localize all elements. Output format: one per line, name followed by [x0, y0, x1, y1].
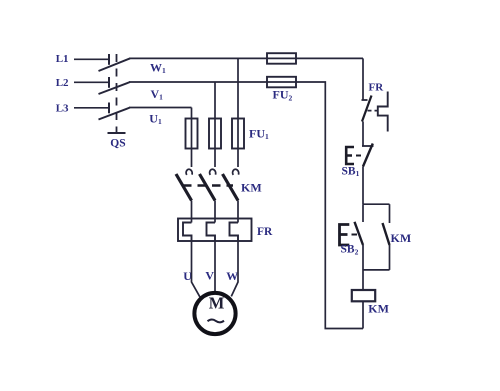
relay contact FR (NC) blade — [362, 96, 372, 122]
pushbutton SB1 linkage dash — [356, 155, 361, 157]
pushbutton SB2 label — [341, 244, 359, 257]
contactor KM main label — [241, 181, 262, 195]
wire L2 input — [74, 81, 109, 83]
motor terminal V label — [205, 269, 214, 283]
wire W to motor — [231, 241, 238, 296]
pushbutton SB2 (NO start) blade — [355, 222, 364, 245]
wire phase U drop — [191, 108, 193, 119]
thermal relay FR heater element 1 — [183, 223, 192, 242]
svg-text:KM: KM — [368, 302, 389, 316]
wire parallel branch top rail — [363, 203, 390, 205]
thermal relay FR heater element 2 — [207, 223, 216, 242]
switch QS linkage dashed line — [116, 54, 118, 132]
svg-text:L3: L3 — [56, 103, 69, 115]
wire SB2 upper stub — [362, 204, 364, 222]
fuse FU1 label — [249, 126, 269, 141]
wire V1 line — [129, 81, 267, 83]
wire below fuse 1 — [191, 149, 193, 168]
QS pole 1 blade — [99, 58, 131, 71]
coil KM label — [368, 302, 389, 316]
contactor KM main contact 1 blade — [176, 174, 192, 201]
wire phase V drop — [214, 82, 216, 119]
svg-text:L1: L1 — [56, 53, 69, 65]
svg-text:FU2: FU2 — [273, 88, 293, 103]
pushbutton SB1 actuator E — [346, 147, 354, 164]
contactor KM main contact 3 hook — [233, 169, 239, 175]
wire SB1 to branch top — [362, 167, 364, 205]
svg-text:FR: FR — [369, 81, 385, 93]
contactor KM main contact 3 blade — [223, 174, 239, 201]
node L2 — [56, 77, 69, 89]
node U1 — [149, 111, 162, 126]
motor terminal W label — [226, 269, 238, 283]
motor M circle — [194, 293, 235, 334]
relay FR trip linkage dashed — [368, 110, 379, 112]
svg-text:W1: W1 — [150, 60, 166, 75]
motor terminal U label — [183, 269, 192, 283]
thermal relay FR heater box — [178, 219, 252, 242]
thermal relay FR heater element 3 — [230, 223, 239, 242]
svg-text:KM: KM — [391, 231, 412, 245]
fuse FU2 label — [273, 88, 293, 103]
svg-text:U1: U1 — [149, 111, 162, 126]
node V1 — [151, 87, 164, 102]
wire SB2 lower stub — [362, 245, 364, 270]
relay contact FR (NC) fixed tick — [362, 99, 368, 101]
fuse FU1 pole 2 — [209, 119, 221, 149]
svg-text:KM: KM — [241, 181, 262, 195]
wire SB2 to coil — [362, 270, 364, 290]
node W1 — [150, 60, 166, 75]
switch QS label — [110, 137, 125, 149]
motor tilde — [208, 319, 225, 322]
QS pole 2 fixed contact tick — [108, 77, 110, 88]
fuse FU2 upper (on W1 line) — [267, 53, 296, 64]
pushbutton SB2 actuator E — [340, 225, 350, 246]
coil KM rectangle — [352, 290, 375, 301]
wire right branch top drop — [362, 58, 364, 100]
QS pole 1 fixed contact tick — [108, 54, 110, 65]
svg-text:V1: V1 — [151, 87, 164, 102]
QS pole 3 fixed contact tick — [108, 103, 110, 114]
QS pole 3 blade — [99, 108, 131, 120]
svg-text:FR: FR — [257, 226, 273, 238]
wire U to motor — [192, 241, 200, 297]
pushbutton SB2 linkage dash — [352, 234, 358, 236]
svg-text:SB2: SB2 — [341, 244, 359, 257]
relay FR label — [369, 81, 385, 93]
contactor KM linkage dashed line — [183, 184, 233, 187]
switch QS handle bar — [108, 132, 126, 134]
wire coil to bottom rail — [362, 302, 364, 329]
svg-text:M: M — [209, 293, 225, 312]
wire U1 line — [129, 107, 192, 109]
wire FR to SB1 — [362, 122, 364, 147]
relay FR trip actuator bracket — [378, 92, 388, 132]
QS pole 2 blade — [99, 82, 131, 94]
svg-text:L2: L2 — [56, 77, 69, 89]
wire phase W drop — [237, 58, 239, 118]
wire parallel branch bottom rail — [363, 269, 390, 271]
motor M letter — [209, 293, 225, 312]
wire contact3 to FR box — [237, 201, 239, 223]
wire contact1 to FR box — [191, 201, 193, 223]
contactor KM main contact 1 hook — [186, 169, 192, 175]
svg-text:W: W — [226, 269, 238, 283]
fuse FU1 pole 1 — [186, 119, 198, 149]
pushbutton SB1 (NC stop) fixed tick — [362, 145, 374, 147]
wire L3 input — [74, 107, 109, 109]
wire L1 input — [74, 58, 109, 60]
wire below fuse 2 — [214, 149, 216, 168]
contactor KM main contact 2 blade — [200, 174, 216, 201]
contact KM auxiliary blade — [383, 223, 390, 245]
wire W1 line — [129, 57, 363, 59]
node L1 — [56, 53, 69, 65]
pushbutton SB1 blade — [363, 144, 373, 167]
contact KM auxiliary lower stub — [389, 245, 391, 270]
thermal relay FR heater label — [257, 226, 273, 238]
contact KM auxiliary label — [391, 231, 412, 245]
fuse FU2 lower (on V1 line) — [267, 77, 296, 88]
contact KM auxiliary upper stub — [389, 204, 391, 223]
pushbutton SB1 label — [342, 165, 360, 178]
wire contact2 to FR box — [214, 201, 216, 223]
wire V1 fuse to return branch corner — [296, 82, 363, 329]
svg-text:FU1: FU1 — [249, 126, 269, 141]
wire below fuse 3 — [237, 149, 239, 168]
wire V to motor — [214, 241, 216, 292]
node L3 — [56, 103, 69, 115]
svg-text:SB1: SB1 — [342, 165, 360, 178]
svg-text:V: V — [205, 269, 214, 283]
fuse FU1 pole 3 — [232, 119, 244, 149]
contactor KM main contact 2 hook — [210, 169, 216, 175]
svg-text:QS: QS — [110, 137, 125, 149]
